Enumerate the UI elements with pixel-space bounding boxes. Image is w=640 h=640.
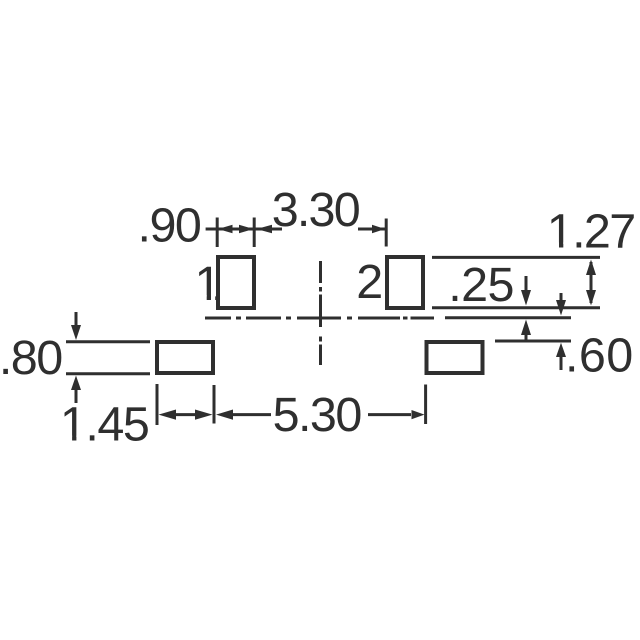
arrowhead .80 up xyxy=(71,376,81,391)
.60 upper arrow shaft xyxy=(560,293,563,302)
arrowhead 1.27 up xyxy=(586,260,596,276)
arrowhead .60 up xyxy=(556,343,566,357)
.80 upper extension line (pad top edge) xyxy=(66,340,150,343)
arrowhead .90 left xyxy=(218,225,233,234)
svg-text:5.30: 5.30 xyxy=(273,388,363,442)
bottom extension ticks for 1.45 / 5.30 xyxy=(156,384,159,425)
1.27/.25 shared extension line (from pad 2 bottom edge) xyxy=(432,306,600,309)
dimension .90: extension ticks above pad 1 xyxy=(216,218,219,248)
.25 lower arrow shaft xyxy=(525,334,528,341)
.25 upper arrow shaft xyxy=(525,276,528,291)
bottom-left side pad xyxy=(157,342,213,373)
arrowhead 1.27 down xyxy=(586,290,596,306)
arrowhead .25 down xyxy=(521,290,531,306)
arrowhead .60 down xyxy=(556,300,566,316)
svg-text:.60: .60 xyxy=(565,328,633,382)
.60 reference line (pad top edge level) xyxy=(495,340,571,343)
svg-text:2: 2 xyxy=(356,255,383,309)
arrowhead 3.30 right xyxy=(372,225,385,234)
arrowhead .25 up xyxy=(521,320,531,336)
pad 1 (top-left rectangular pad) xyxy=(218,257,254,308)
arrowhead .80 down xyxy=(71,325,81,340)
arrowhead 5.30 right xyxy=(412,410,425,419)
1.27 top extension line (from pad 2 top edge) xyxy=(432,256,600,259)
svg-text:.80: .80 xyxy=(0,331,63,385)
dimension line for 1.45 / 5.30 xyxy=(176,413,195,416)
svg-text:1: 1 xyxy=(195,257,222,311)
horizontal centerline (dash-dot) xyxy=(205,317,434,320)
foot-bar patches to make "1" glyphs Helvetica-style xyxy=(550,242,559,249)
.80 lower arrow shaft xyxy=(75,390,78,403)
bottom-right side pad xyxy=(427,342,483,373)
vertical centerline (dash-dot) xyxy=(319,261,322,365)
arrowhead 3.30 left xyxy=(257,225,273,234)
dimension line for .90 / 3.30 xyxy=(206,228,282,231)
arrowhead 1.45 right xyxy=(195,410,213,420)
svg-text:1.45: 1.45 xyxy=(60,398,150,452)
pad 2 (top-right rectangular pad) xyxy=(387,257,423,308)
.60 lower arrow shaft xyxy=(560,356,563,370)
svg-text:.25: .25 xyxy=(448,258,514,312)
arrowhead 1.45 left xyxy=(159,410,177,420)
dimension 3.30: extension tick above pad 2 xyxy=(385,219,388,247)
.80 upper arrow shaft xyxy=(75,312,78,326)
1.27 double-arrow shaft xyxy=(590,262,593,303)
svg-text:.90: .90 xyxy=(138,198,202,252)
.80 lower extension line (pad bottom edge) xyxy=(66,372,150,375)
arrowhead 5.30 left xyxy=(216,410,233,420)
svg-text:1.27: 1.27 xyxy=(547,204,636,258)
.25 lower reference line (centerline level) xyxy=(445,316,571,319)
arrowhead .90 right xyxy=(239,225,254,234)
svg-text:3.30: 3.30 xyxy=(272,183,361,237)
